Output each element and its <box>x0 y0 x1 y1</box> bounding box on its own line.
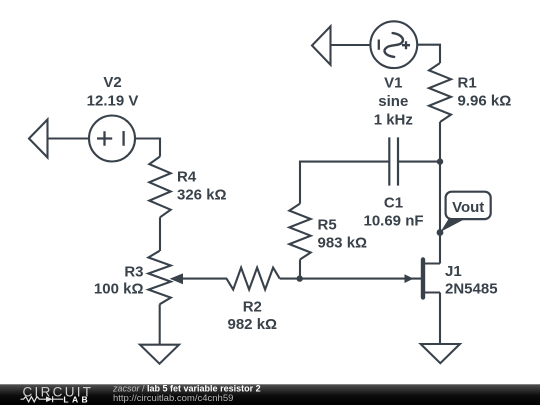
svg-text:R3: R3 <box>124 263 143 280</box>
svg-text:2N5485: 2N5485 <box>445 281 498 298</box>
wire <box>135 139 160 157</box>
CircuitLab logo squiggle (resistor+diode) <box>21 396 64 402</box>
wire <box>417 45 440 63</box>
node junction dot Vout <box>437 229 444 236</box>
svg-text:983 kΩ: 983 kΩ <box>318 235 368 252</box>
ground (right) <box>421 344 460 363</box>
svg-text:LAB: LAB <box>63 395 91 405</box>
svg-text:1 kHz: 1 kHz <box>374 112 413 129</box>
wire <box>398 161 440 163</box>
svg-text:982 kΩ: 982 kΩ <box>228 316 278 333</box>
svg-text:V1: V1 <box>384 75 402 92</box>
wire <box>331 44 371 46</box>
ground (left) <box>140 345 179 364</box>
svg-text:J1: J1 <box>445 263 462 280</box>
resistor R5 <box>289 204 310 260</box>
svg-text:C1: C1 <box>384 195 403 212</box>
resistor R1 <box>429 63 451 122</box>
svg-text:http://circuitlab.com/c4cnh59: http://circuitlab.com/c4cnh59 <box>113 393 233 404</box>
voltage source V2 <box>89 116 135 162</box>
wire <box>280 278 422 280</box>
capacitor C1 <box>389 137 398 185</box>
svg-text:100 kΩ: 100 kΩ <box>94 281 144 298</box>
svg-text:R2: R2 <box>243 299 262 316</box>
svg-text:R5: R5 <box>318 217 337 234</box>
svg-text:R4: R4 <box>177 168 197 185</box>
wire <box>159 217 161 251</box>
node junction dot (drain net) <box>437 158 443 164</box>
svg-text:326 kΩ: 326 kΩ <box>177 187 227 204</box>
sine source V1 <box>370 21 417 68</box>
transistor J1 (n-JFET) <box>405 260 441 345</box>
svg-text:12.19 V: 12.19 V <box>87 92 139 109</box>
svg-text:V2: V2 <box>103 74 121 91</box>
svg-text:R1: R1 <box>458 75 477 92</box>
wire <box>299 260 301 279</box>
potentiometer R3 <box>148 251 170 304</box>
ground terminal (rotated) at V1 <box>312 26 331 65</box>
svg-text:sine: sine <box>378 93 408 110</box>
resistor R4 <box>149 157 170 218</box>
wire <box>48 137 90 139</box>
svg-text:zacsor / lab 5 fet variable re: zacsor / lab 5 fet variable resistor 2 <box>112 384 261 394</box>
wire <box>159 304 161 344</box>
R3 wiper arrow <box>170 273 183 284</box>
wire <box>439 122 441 264</box>
node flag Vout <box>441 192 491 232</box>
svg-text:10.69 nF: 10.69 nF <box>363 212 423 229</box>
resistor R2 <box>227 268 280 290</box>
svg-text:Vout: Vout <box>452 199 484 216</box>
svg-text:9.96 kΩ: 9.96 kΩ <box>458 93 512 110</box>
wire <box>180 278 227 280</box>
wire <box>300 162 389 204</box>
ground terminal (rotated) at V2 <box>29 120 48 158</box>
node junction dot (gate net) <box>297 275 303 281</box>
